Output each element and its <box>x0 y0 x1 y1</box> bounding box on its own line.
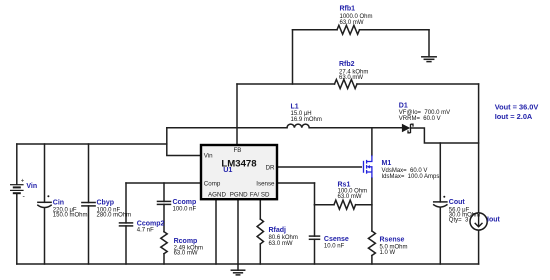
svg-text:Vout = 36.0V: Vout = 36.0V <box>495 102 539 111</box>
svg-text:Rcomp: Rcomp <box>174 238 198 245</box>
svg-text:VRRM= 60.0 V: VRRM= 60.0 V <box>399 116 441 122</box>
svg-text:280.0 mOhm: 280.0 mOhm <box>97 212 132 218</box>
svg-text:IdsMax= 100.0 Amps: IdsMax= 100.0 Amps <box>382 174 440 180</box>
svg-text:Qty= 3: Qty= 3 <box>449 218 469 224</box>
svg-text:63.0 mW: 63.0 mW <box>174 251 198 257</box>
svg-text:63.0 mW: 63.0 mW <box>338 194 362 200</box>
svg-text:Cout: Cout <box>449 199 466 206</box>
svg-text:1.0 W: 1.0 W <box>380 250 396 256</box>
svg-text:DR: DR <box>266 165 275 172</box>
svg-text:Rs1: Rs1 <box>338 181 351 188</box>
svg-text:Rfb1: Rfb1 <box>340 6 356 13</box>
svg-text:U1: U1 <box>223 165 232 174</box>
svg-text:FA/ SD: FA/ SD <box>250 191 270 198</box>
svg-text:Cin: Cin <box>53 200 64 207</box>
svg-text:L1: L1 <box>291 104 299 111</box>
svg-text:10.0 nF: 10.0 nF <box>324 244 345 250</box>
svg-text:Rfb2: Rfb2 <box>339 61 355 68</box>
svg-text:FB: FB <box>234 147 242 154</box>
svg-text:4.7 nF: 4.7 nF <box>137 227 154 233</box>
svg-text:Iout: Iout <box>487 217 500 224</box>
svg-text:D1: D1 <box>399 103 408 110</box>
svg-text:Vin: Vin <box>204 153 213 160</box>
svg-text:Comp: Comp <box>204 180 221 187</box>
svg-text:16.9 mOhm: 16.9 mOhm <box>291 117 322 123</box>
svg-text:+: + <box>21 179 25 185</box>
svg-text:Cbyp: Cbyp <box>97 199 115 206</box>
svg-text:150.0 mOhm: 150.0 mOhm <box>53 213 88 219</box>
svg-text:63.0 mW: 63.0 mW <box>339 75 363 81</box>
svg-text:Ccomp2: Ccomp2 <box>137 220 165 227</box>
svg-text:63.0 mW: 63.0 mW <box>340 20 364 26</box>
svg-text:Vin: Vin <box>26 183 37 190</box>
svg-text:Csense: Csense <box>324 236 349 243</box>
svg-text:AGND: AGND <box>208 191 226 198</box>
svg-text:Rsense: Rsense <box>380 237 405 244</box>
svg-text:PGND: PGND <box>230 191 248 198</box>
svg-text:M1: M1 <box>382 160 392 167</box>
svg-text:Isense: Isense <box>256 180 275 187</box>
svg-text:63.0 mW: 63.0 mW <box>269 241 293 247</box>
svg-text:Ccomp: Ccomp <box>173 199 197 206</box>
svg-text:Rfadj: Rfadj <box>269 227 287 234</box>
svg-text:Iout = 2.0A: Iout = 2.0A <box>495 112 533 121</box>
svg-text:100.0 nF: 100.0 nF <box>173 206 197 212</box>
